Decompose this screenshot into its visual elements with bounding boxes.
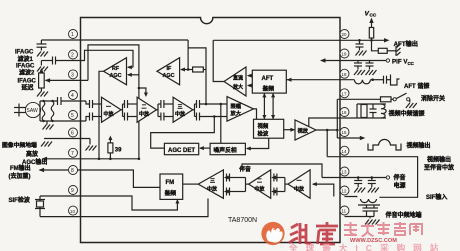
svg-text:9: 9 xyxy=(71,188,74,194)
wire pin12 to SIF transformer xyxy=(345,196,357,199)
pin 20 xyxy=(340,30,349,39)
svg-text:视频中频谐振: 视频中频谐振 xyxy=(389,110,425,118)
svg-text:限幅: 限幅 xyxy=(231,102,242,110)
svg-text:滤波2: 滤波2 xyxy=(19,68,35,76)
svg-text:1: 1 xyxy=(71,32,74,38)
svg-text:鉴频: 鉴频 xyxy=(164,189,177,197)
amplifier limiter xyxy=(227,97,254,122)
svg-text:16: 16 xyxy=(342,110,347,115)
svg-text:7: 7 xyxy=(71,151,74,157)
coupling caps sound 1-2 with arrows xyxy=(271,174,288,196)
amplifier video amp xyxy=(295,120,316,140)
svg-text:3: 3 xyxy=(71,73,74,79)
svg-text:19: 19 xyxy=(342,52,347,57)
svg-text:14: 14 xyxy=(342,149,347,154)
wire AFT input from pin18 with arrow xyxy=(286,78,354,82)
svg-text:高放: 高放 xyxy=(26,150,39,158)
op-amp IF AGC xyxy=(157,58,180,85)
svg-text:消除开关: 消除开关 xyxy=(421,95,445,103)
wire RF AGC output down to pin7 xyxy=(99,71,104,159)
wire AFT to DC amp arrows xyxy=(247,74,253,88)
wire to pin14 xyxy=(326,130,328,157)
svg-text:三: 三 xyxy=(210,179,215,185)
arrow into RF AGC upper input xyxy=(127,65,133,69)
svg-text:延迟: 延迟 xyxy=(21,83,34,91)
wire IF AGC input with resistor xyxy=(180,67,206,72)
amplifier sound second IF (points left) xyxy=(249,170,271,198)
coupling caps stage2-3 xyxy=(157,100,174,121)
wire pin11 sound IF ground xyxy=(345,217,380,225)
wire pin18 net AFT resonator xyxy=(354,75,399,86)
svg-text:5: 5 xyxy=(71,113,74,119)
svg-text:伴音中频地端: 伴音中频地端 xyxy=(385,211,422,219)
svg-text:中放: 中放 xyxy=(139,111,150,118)
svg-text:FM输出: FM输出 xyxy=(10,164,31,172)
pin 17 xyxy=(340,89,349,98)
resistor to Vcc xyxy=(369,18,373,41)
wire bottom rail tap to AGC DET xyxy=(151,117,215,149)
pin 7 xyxy=(69,148,78,157)
svg-text:二: 二 xyxy=(257,179,262,185)
ground under transformer xyxy=(43,121,54,130)
svg-text:电源: 电源 xyxy=(394,182,406,190)
series capacitor on pin4 wire xyxy=(58,97,87,105)
trap response symbol xyxy=(368,139,401,150)
svg-text:放大: 放大 xyxy=(230,109,242,117)
pin 1 xyxy=(69,30,78,39)
pin 3 xyxy=(69,70,78,79)
wire pin9 net into FM detector bottom xyxy=(40,196,179,210)
svg-text:12: 12 xyxy=(342,189,347,194)
coupling caps stage1-2 xyxy=(121,100,137,121)
svg-text:8: 8 xyxy=(71,168,74,174)
svg-text:SAW: SAW xyxy=(27,108,38,114)
svg-text:全球最大IC采购网站: 全球最大IC采购网站 xyxy=(288,242,446,251)
wire video det -> video amp arrow xyxy=(284,128,296,132)
pin 6 xyxy=(69,128,78,137)
amplifier sound first IF (points left) xyxy=(288,170,310,198)
svg-text:39: 39 xyxy=(115,148,122,154)
ground for C1 xyxy=(37,52,48,57)
wire pin13 net sound supply xyxy=(322,176,390,179)
svg-text:RF: RF xyxy=(112,66,120,72)
svg-text:SIF输入: SIF输入 xyxy=(426,193,447,201)
svg-text:IFAGC: IFAGC xyxy=(15,50,34,56)
block AFT discriminator xyxy=(252,70,286,93)
wire pin1 net: cap to IFAGC filter1, into IC to IF AGC xyxy=(41,40,206,104)
svg-text:二: 二 xyxy=(142,105,147,111)
svg-text:IF: IF xyxy=(167,66,172,72)
block video detector xyxy=(254,119,284,138)
block AGC DET xyxy=(164,143,198,154)
wire pin14 loop to SIF transformer xyxy=(327,157,417,198)
wire pin4 into first IF amp with coupling cap xyxy=(86,100,102,108)
pin 9 xyxy=(69,186,78,195)
coupling caps stage3-limiter xyxy=(193,100,227,121)
svg-text:(去加重): (去加重) xyxy=(9,172,31,180)
svg-text:AGC: AGC xyxy=(163,73,175,79)
wire pin16 net video IF tank xyxy=(309,104,386,126)
wire pin8 net: FM output to FM detector xyxy=(39,168,160,188)
svg-text:18: 18 xyxy=(342,72,347,77)
svg-text:FM: FM xyxy=(166,180,175,186)
svg-text:中放: 中放 xyxy=(207,186,218,193)
amplifier first IF amp xyxy=(102,97,122,122)
svg-text:TA8700N: TA8700N xyxy=(228,217,257,224)
svg-text:10: 10 xyxy=(70,209,75,214)
svg-text:一: 一 xyxy=(297,179,302,185)
pin 12 xyxy=(340,186,349,195)
svg-text:视频: 视频 xyxy=(258,122,269,130)
svg-text:鉴频: 鉴频 xyxy=(262,85,275,93)
wire video amp output node xyxy=(316,99,339,138)
svg-text:2: 2 xyxy=(71,53,74,59)
wire pin17 net elimination switch xyxy=(337,93,417,108)
wire pin20 net AFT output xyxy=(213,38,389,42)
ceramic discriminator SIF (between pin9/pin10) xyxy=(35,196,45,217)
capacitor pair under transformer xyxy=(363,205,379,217)
wire DC amp output up to pin20 line xyxy=(213,40,224,81)
svg-text:视放: 视放 xyxy=(298,126,309,134)
pin 14 xyxy=(340,146,349,155)
transformer SIF input tank xyxy=(358,199,380,205)
pin 16 xyxy=(340,108,349,117)
svg-text:视频输出: 视频输出 xyxy=(407,142,431,150)
svg-text:17: 17 xyxy=(342,92,347,97)
pin 4 xyxy=(69,91,78,100)
svg-text:IFAGC: IFAGC xyxy=(16,63,35,69)
svg-text:伴音: 伴音 xyxy=(393,174,406,182)
svg-text:伴音: 伴音 xyxy=(238,165,251,173)
svg-text:AGC DET: AGC DET xyxy=(168,148,195,154)
capacitor pair on pin13 wire xyxy=(354,176,379,192)
svg-text:三: 三 xyxy=(178,105,183,111)
svg-text:中放: 中放 xyxy=(255,186,266,193)
svg-text:IFAGC: IFAGC xyxy=(18,78,37,84)
svg-text:4: 4 xyxy=(71,93,74,99)
pin 15 xyxy=(340,128,349,137)
svg-text:一: 一 xyxy=(106,105,111,111)
amplifier third IF amp xyxy=(173,97,193,122)
svg-text:图像中频地端: 图像中频地端 xyxy=(2,141,37,149)
svg-text:至伴音中放: 至伴音中放 xyxy=(424,163,455,171)
watermark dzsc.com xyxy=(261,222,446,251)
wire sound supply rail from pin13 xyxy=(242,164,322,178)
svg-text:检波: 检波 xyxy=(258,129,269,137)
svg-text:视频输出: 视频输出 xyxy=(427,156,451,164)
op-amp DC amp (AFT) xyxy=(224,67,246,96)
wire top rail tap to noise inverter xyxy=(220,104,222,143)
svg-text:15: 15 xyxy=(342,130,347,135)
capacitor pair on pin19 wire to ground xyxy=(354,61,377,76)
block noise inverter xyxy=(210,143,245,154)
svg-text:20: 20 xyxy=(342,32,347,37)
svg-text:AFT 谐振: AFT 谐振 xyxy=(404,82,429,90)
svg-text:直流: 直流 xyxy=(233,75,243,82)
pin 13 xyxy=(340,167,349,176)
svg-text:CC: CC xyxy=(370,13,377,18)
pin 11 xyxy=(340,206,349,215)
capacitor on pin20 wire to ground xyxy=(356,40,367,55)
svg-text:滤波1: 滤波1 xyxy=(18,55,34,63)
svg-text:AFT: AFT xyxy=(262,76,274,82)
wire noise inv -> AGC DET arrow xyxy=(199,146,210,150)
wire AFT-video det vertical links with arrows xyxy=(262,93,275,120)
svg-text:中放: 中放 xyxy=(175,111,186,118)
block FM detector xyxy=(160,174,183,199)
wire pin10 net xyxy=(40,199,208,217)
amplifier sound third IF (points left) xyxy=(198,170,223,198)
pin 10 xyxy=(69,206,78,215)
IF input transformer T1 coils xyxy=(40,100,86,122)
resistor branch to tuner (ticks) xyxy=(372,40,401,56)
svg-text:AGC输出: AGC输出 xyxy=(22,158,47,166)
wire pin15 net video output with arrow xyxy=(337,136,365,140)
ground for filter2 cap xyxy=(37,61,48,72)
capacitor C1 (IFAGC filter 1) xyxy=(37,40,47,51)
svg-text:中放: 中放 xyxy=(294,186,305,193)
pin 19 xyxy=(340,49,349,58)
svg-text:SIF检波: SIF检波 xyxy=(9,196,31,204)
svg-text:放大: 放大 xyxy=(232,84,243,91)
wire pin19 net PIF Vcc with arrow xyxy=(320,58,390,62)
svg-text:AGC: AGC xyxy=(110,73,122,79)
pin 18 xyxy=(340,69,349,78)
coupling caps sound 2-3 with arrows xyxy=(224,174,249,196)
SAW filter FL1 xyxy=(14,102,41,117)
pin 5 xyxy=(69,111,78,120)
wire pin7 net: RF AGC output xyxy=(42,157,139,161)
wire limiter out to video det xyxy=(254,109,257,119)
pin 8 xyxy=(69,166,78,175)
wire pin5 into first IF amp with coupling cap xyxy=(86,113,102,122)
resistor R-delay (IFAGC delay) xyxy=(37,68,48,97)
wire video det -> noise inv arrow xyxy=(246,138,269,150)
svg-text:11: 11 xyxy=(342,209,347,214)
svg-text:13: 13 xyxy=(342,170,347,175)
pin 2 xyxy=(69,50,78,59)
wire pin2 net: series cap, filter2 ground, staircase to RF AGC xyxy=(41,50,133,67)
svg-text:6: 6 xyxy=(71,131,74,137)
wire pin3 net: delay resistor, staircase to RF AGC lower input xyxy=(45,45,148,160)
op-amp RF AGC xyxy=(104,58,127,85)
resistor R 39 with arrow xyxy=(108,136,122,159)
wire pin12 SIF input into sound first IF xyxy=(312,182,334,196)
amplifier second IF amp xyxy=(137,97,156,122)
wire sound 3rd IF -> FM det xyxy=(183,183,199,185)
svg-text:噪声反相: 噪声反相 xyxy=(214,146,237,154)
IC package outline U1 TA8700N with index notch xyxy=(81,18,341,243)
wire pin6 net: picture IF ground xyxy=(41,139,97,151)
svg-text:中放: 中放 xyxy=(104,111,115,118)
